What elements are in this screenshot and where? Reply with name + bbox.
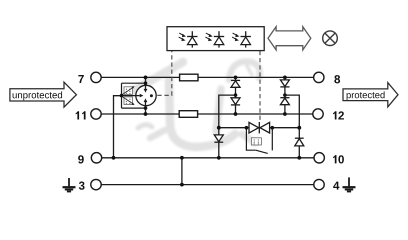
diode D-left <box>214 135 223 142</box>
terminal 4 <box>314 179 324 189</box>
terminal 9 <box>91 153 101 163</box>
wire line 3-4 <box>101 184 313 186</box>
diode D-right <box>295 138 304 146</box>
thermal disconnect F1 <box>122 86 135 95</box>
protected arrow label <box>343 83 398 107</box>
resistor R1 <box>180 74 198 81</box>
wire line 7-8 <box>101 76 313 78</box>
terminal 12 <box>313 109 323 119</box>
terminal 8 <box>314 72 324 82</box>
suppressor diode stack B top <box>280 80 289 105</box>
wire right midpoint branch B <box>285 95 299 158</box>
wire vertical tap to line 9 <box>114 96 122 158</box>
wire stack A vertical <box>235 77 237 114</box>
double-headed arrow <box>268 27 311 50</box>
wire line 11-12 <box>101 113 312 115</box>
thermal disconnect F2 <box>122 97 135 106</box>
LED 3 <box>232 31 251 47</box>
gas discharge tube U1 <box>114 77 157 114</box>
unprotected arrow label <box>10 82 77 107</box>
terminal 11 <box>91 109 101 119</box>
wire bowtie row <box>219 127 299 129</box>
terminal 10 <box>314 153 324 163</box>
watermark <box>131 62 260 147</box>
label protected <box>347 91 385 100</box>
ground right <box>343 177 356 191</box>
LED indicator box <box>167 27 264 51</box>
bidirectional suppressor (bowtie) <box>249 122 270 133</box>
label 12 <box>333 111 344 119</box>
label 8 <box>334 75 340 83</box>
wire line 9-10 <box>102 157 314 159</box>
LED 1 <box>179 31 198 47</box>
suppressor diode stack A top <box>231 80 240 105</box>
thermal switch bracket <box>246 128 272 154</box>
label unprotected <box>13 91 62 100</box>
wire stack B vertical <box>284 77 286 114</box>
terminal 7 <box>91 72 101 82</box>
terminal 3 <box>91 179 101 189</box>
LED 2 <box>205 31 224 47</box>
wire left midpoint branch A <box>219 95 236 158</box>
lamp symbol <box>323 31 338 46</box>
wire vertical line9-line3 <box>181 158 183 185</box>
label 3 <box>79 182 85 190</box>
dashed indicator links <box>157 51 260 122</box>
thermal element box <box>251 138 261 145</box>
label 10 <box>333 155 344 163</box>
thermal disconnect branch wires <box>122 83 146 108</box>
label 11 <box>76 111 86 119</box>
ground left <box>63 178 76 192</box>
resistor R2 <box>179 111 197 118</box>
label 4 <box>333 182 339 190</box>
label 9 <box>78 155 84 163</box>
junction dots <box>112 76 302 187</box>
label 7 <box>78 75 83 83</box>
